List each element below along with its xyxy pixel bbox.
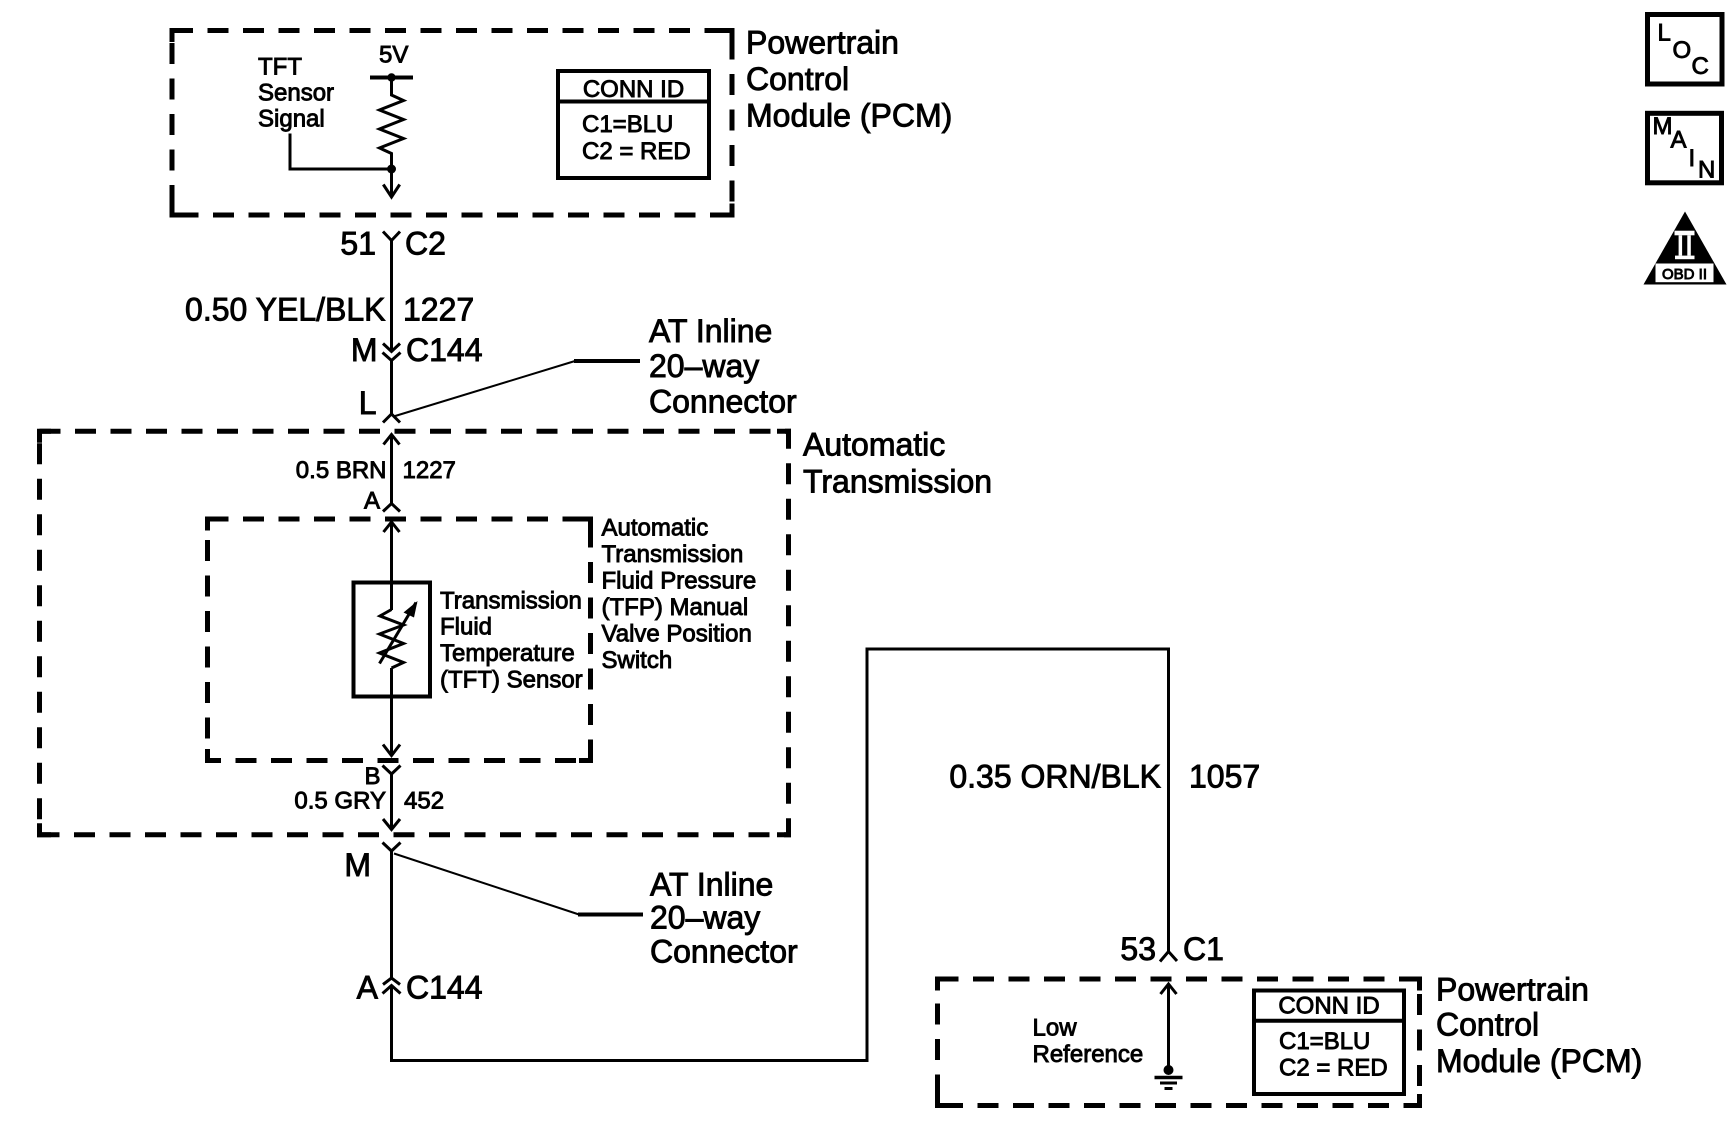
5V supply label bbox=[379, 42, 408, 69]
svg-text:Signal: Signal bbox=[258, 106, 325, 133]
svg-text:C2 = RED: C2 = RED bbox=[582, 138, 691, 165]
svg-text:Transmission: Transmission bbox=[602, 541, 744, 568]
Transmission Fluid Temperature (TFT) Sensor label bbox=[440, 588, 583, 694]
wire label 0.5 BRN 1227 bbox=[296, 457, 456, 484]
AT Inline 20-way Connector note (upper) bbox=[649, 313, 797, 420]
svg-text:1057: 1057 bbox=[1189, 759, 1260, 795]
svg-text:OBD II: OBD II bbox=[1662, 266, 1707, 283]
svg-text:Low: Low bbox=[1033, 1015, 1078, 1042]
svg-text:1227: 1227 bbox=[403, 457, 456, 484]
wire 1227 from PCM to C144 bbox=[390, 241, 393, 352]
arrow at TFP box bottom bbox=[383, 745, 400, 756]
variable-resistor arrow through zigzag bbox=[380, 601, 418, 664]
svg-text:N: N bbox=[1698, 157, 1715, 184]
svg-text:0.35 ORN/BLK: 0.35 ORN/BLK bbox=[949, 759, 1161, 795]
C2 label bbox=[405, 226, 446, 262]
ground symbol inside PCM bbox=[1155, 1065, 1183, 1089]
pin A fork of C144 (lower) bbox=[383, 978, 400, 985]
svg-text:Fluid: Fluid bbox=[440, 614, 492, 641]
svg-text:Module (PCM): Module (PCM) bbox=[1436, 1043, 1642, 1079]
svg-text:TFT: TFT bbox=[258, 53, 302, 80]
Automatic Transmission dashed box bbox=[40, 431, 789, 835]
svg-text:Powertrain: Powertrain bbox=[1436, 972, 1589, 1008]
svg-text:M: M bbox=[344, 847, 371, 883]
TFP Manual Valve Position Switch label bbox=[602, 515, 757, 675]
svg-text:Fluid Pressure: Fluid Pressure bbox=[602, 568, 757, 595]
leader line to AT Inline connector note bbox=[394, 361, 641, 417]
svg-text:0.5 GRY: 0.5 GRY bbox=[294, 788, 386, 815]
wire 452/1057 routing to PCM low reference bbox=[392, 649, 1169, 1061]
pin M label bbox=[351, 332, 378, 368]
svg-text:M: M bbox=[1653, 113, 1673, 140]
svg-text:Automatic: Automatic bbox=[803, 427, 945, 463]
svg-text:(TFT) Sensor: (TFT) Sensor bbox=[440, 667, 583, 694]
C144 label (lower) bbox=[406, 970, 483, 1006]
pin A fork bbox=[383, 504, 400, 512]
junction dot at signal node bbox=[387, 165, 396, 174]
arrow entering PCM box (low reference) bbox=[1161, 984, 1177, 1066]
svg-text:0.5 BRN: 0.5 BRN bbox=[296, 457, 387, 484]
svg-text:A: A bbox=[364, 488, 380, 515]
svg-text:M: M bbox=[351, 332, 378, 368]
svg-text:Temperature: Temperature bbox=[440, 640, 575, 667]
svg-text:Valve Position: Valve Position bbox=[602, 621, 752, 648]
CONN ID table (bottom) bbox=[1254, 991, 1404, 1095]
TFT thermistor zigzag bbox=[380, 610, 404, 669]
wire label 0.50 YEL/BLK 1227 bbox=[185, 292, 474, 328]
pin M fork below AT box bbox=[383, 843, 401, 978]
TFT sensor box bbox=[354, 583, 431, 697]
pin 53 fork bbox=[1160, 952, 1177, 962]
inline connector C144 pin M (arrow + fork) bbox=[383, 344, 401, 361]
pin A label bbox=[364, 488, 380, 515]
pin M label bbox=[344, 847, 371, 883]
svg-text:A: A bbox=[1671, 127, 1687, 154]
resistor R (TFT pull-up inside PCM) bbox=[380, 78, 404, 170]
pin L fork bbox=[383, 414, 400, 423]
svg-text:20–way: 20–way bbox=[649, 348, 759, 384]
Powertrain Control Module (PCM) title bottom bbox=[1436, 972, 1642, 1080]
svg-text:53: 53 bbox=[1120, 931, 1156, 967]
svg-text:Transmission: Transmission bbox=[440, 588, 582, 615]
svg-text:AT Inline: AT Inline bbox=[650, 867, 773, 903]
TFP switch inner dashed box bbox=[208, 519, 591, 761]
svg-text:C1: C1 bbox=[1183, 931, 1224, 967]
svg-text:Switch: Switch bbox=[602, 647, 673, 674]
CONN ID table (top) bbox=[558, 71, 709, 178]
svg-text:452: 452 bbox=[404, 788, 444, 815]
Powertrain Control Module (PCM) dashed box bottom-right bbox=[938, 979, 1420, 1106]
svg-text:Sensor: Sensor bbox=[258, 79, 334, 106]
svg-text:I: I bbox=[1689, 145, 1696, 172]
Powertrain Control Module (PCM) dashed box top-left bbox=[172, 31, 732, 216]
wire below zigzag to lower arrow bbox=[390, 668, 393, 756]
svg-text:Control: Control bbox=[1436, 1007, 1539, 1043]
svg-text:Reference: Reference bbox=[1033, 1041, 1144, 1068]
svg-text:Connector: Connector bbox=[649, 384, 797, 420]
MAIN icon box bbox=[1648, 113, 1722, 184]
Automatic Transmission title bbox=[803, 427, 992, 500]
svg-text:CONN ID: CONN ID bbox=[583, 76, 684, 103]
svg-text:0.50 YEL/BLK: 0.50 YEL/BLK bbox=[185, 292, 385, 328]
svg-text:C1=BLU: C1=BLU bbox=[582, 111, 673, 138]
C1 label bbox=[1183, 931, 1224, 967]
Powertrain Control Module (PCM) title top bbox=[746, 24, 952, 133]
arrow up at C144 pin A bbox=[383, 986, 401, 994]
svg-text:Module (PCM): Module (PCM) bbox=[746, 97, 952, 133]
svg-text:(TFP) Manual: (TFP) Manual bbox=[602, 594, 749, 621]
wire label 0.5 GRY 452 bbox=[294, 788, 444, 815]
svg-text:Control: Control bbox=[746, 61, 849, 97]
pin B label bbox=[364, 763, 380, 790]
svg-text:B: B bbox=[364, 763, 380, 790]
svg-text:C1=BLU: C1=BLU bbox=[1279, 1028, 1370, 1055]
pin 53 label bbox=[1120, 931, 1156, 967]
arrow down inside PCM bbox=[383, 169, 399, 197]
AT Inline 20-way Connector note (lower) bbox=[650, 867, 798, 970]
OBD II triangle icon bbox=[1644, 212, 1727, 285]
junction dot at 5V bbox=[387, 73, 395, 81]
svg-text:C144: C144 bbox=[406, 332, 483, 368]
svg-text:L: L bbox=[359, 385, 377, 421]
svg-text:O: O bbox=[1673, 37, 1692, 64]
pin L label bbox=[359, 385, 377, 421]
svg-text:5V: 5V bbox=[379, 42, 408, 69]
svg-text:20–way: 20–way bbox=[650, 900, 760, 936]
svg-text:C2: C2 bbox=[405, 226, 446, 262]
5V supply bar bbox=[370, 76, 413, 80]
svg-text:1227: 1227 bbox=[403, 292, 474, 328]
pin 51 label bbox=[340, 226, 376, 262]
arrow entering AT box bbox=[384, 435, 400, 504]
svg-text:Automatic: Automatic bbox=[602, 515, 709, 542]
C144 label bbox=[406, 332, 483, 368]
LOC icon box bbox=[1648, 15, 1723, 85]
svg-text:L: L bbox=[1658, 20, 1671, 47]
pin A label (lower) bbox=[357, 970, 379, 1006]
svg-text:A: A bbox=[357, 970, 379, 1006]
Low Reference label bbox=[1033, 1015, 1144, 1069]
leader line to AT Inline connector note lower bbox=[394, 854, 643, 915]
svg-text:Powertrain: Powertrain bbox=[746, 24, 899, 60]
svg-text:Connector: Connector bbox=[650, 934, 798, 970]
wire label 0.35 ORN/BLK 1057 bbox=[949, 759, 1260, 795]
wire to pin L bbox=[390, 361, 393, 415]
svg-text:Transmission: Transmission bbox=[803, 464, 992, 500]
svg-text:CONN ID: CONN ID bbox=[1278, 993, 1379, 1020]
svg-text:C: C bbox=[1692, 53, 1709, 80]
svg-text:AT Inline: AT Inline bbox=[649, 313, 772, 349]
svg-text:51: 51 bbox=[340, 226, 376, 262]
svg-text:C2 = RED: C2 = RED bbox=[1279, 1055, 1388, 1082]
arrow entering TFP box bbox=[384, 522, 400, 584]
svg-text:C144: C144 bbox=[406, 970, 483, 1006]
connector C2 fork at pin 51 bbox=[383, 232, 400, 241]
wire inside sensor box bbox=[390, 584, 393, 610]
arrow at AT box bottom bbox=[383, 819, 400, 830]
TFT Sensor Signal label bbox=[258, 53, 334, 132]
wire from signal text bbox=[290, 134, 392, 170]
pin B fork bbox=[383, 766, 401, 830]
